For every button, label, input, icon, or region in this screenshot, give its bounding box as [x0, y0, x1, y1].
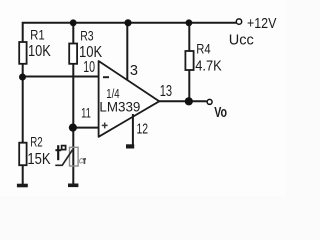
- svg-text:Vo: Vo: [214, 105, 227, 121]
- svg-text:4.7K: 4.7K: [195, 58, 221, 75]
- svg-text:R1: R1: [30, 27, 45, 43]
- svg-text:12: 12: [137, 120, 149, 137]
- svg-text:Ucc: Ucc: [229, 33, 254, 49]
- svg-text:LM339: LM339: [99, 99, 140, 115]
- svg-text:R2: R2: [30, 135, 42, 150]
- svg-text:+12V: +12V: [247, 16, 276, 32]
- svg-text:13: 13: [160, 83, 172, 100]
- svg-text:11: 11: [81, 105, 91, 121]
- svg-text:R3: R3: [80, 27, 94, 43]
- svg-text:10K: 10K: [28, 43, 51, 60]
- svg-text:R4: R4: [196, 40, 211, 56]
- svg-text:15K: 15K: [27, 151, 51, 168]
- svg-text:3: 3: [130, 63, 138, 79]
- svg-text:10: 10: [83, 59, 95, 76]
